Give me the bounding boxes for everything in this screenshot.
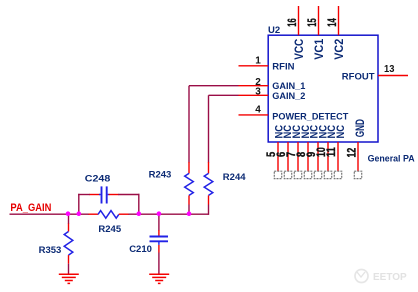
pin 4 (POWER_DETECT) lead — [239, 114, 269, 116]
capacitor C248 — [89, 186, 119, 203]
svg-text:GAIN_2: GAIN_2 — [272, 91, 305, 102]
junction at R243 / rail — [187, 211, 192, 216]
svg-text:3: 3 — [255, 87, 261, 98]
wire rail to C210 — [158, 214, 160, 230]
resistor R245 — [89, 211, 129, 219]
wire C248 loop top-right — [118, 194, 139, 196]
junction at C248 loop left / rail — [77, 211, 82, 216]
junction at C248 loop right / rail — [137, 211, 142, 216]
resistor R243 — [185, 162, 194, 205]
svg-text:R353: R353 — [39, 245, 62, 256]
svg-text:R245: R245 — [98, 224, 121, 235]
wire C248 loop top-left — [78, 194, 90, 196]
pin 16 (VCC) lead — [298, 6, 300, 35]
resistor R353 — [64, 224, 73, 264]
svg-text:VC2: VC2 — [332, 39, 346, 60]
svg-text:1: 1 — [255, 55, 261, 66]
svg-text:EETOP: EETOP — [373, 272, 407, 283]
svg-text:C248: C248 — [85, 174, 111, 185]
svg-text:RFOUT: RFOUT — [342, 71, 375, 82]
wire rail to R353 — [68, 214, 70, 224]
svg-text:13: 13 — [384, 64, 395, 75]
pin 8 no-connect square — [304, 171, 311, 178]
pin 5 no-connect square — [274, 171, 281, 178]
pin 7 (NC) lead — [297, 142, 299, 171]
svg-text:PA_GAIN: PA_GAIN — [10, 202, 51, 214]
svg-text:General PA: General PA — [368, 153, 415, 163]
wire PA_GAIN rail left segment — [10, 213, 90, 215]
pin 6 (NC) lead — [287, 142, 289, 171]
svg-text:11: 11 — [326, 147, 338, 157]
pin 6 no-connect square — [284, 171, 291, 178]
watermark EETOP — [355, 270, 407, 284]
svg-text:GND: GND — [353, 119, 367, 137]
wire C248 loop left vertical — [78, 194, 80, 214]
pin 1 (RFIN) lead — [239, 65, 269, 67]
pin 15 (VC1) lead — [318, 6, 320, 35]
wire PA_GAIN rail right segment — [128, 213, 209, 215]
wire C248 loop right vertical — [138, 194, 140, 214]
wire R244 to rail — [208, 205, 210, 215]
pin 10 (NC) lead — [327, 142, 329, 171]
wire GAIN_2 vertical to R244 — [208, 95, 210, 162]
wire GAIN_2 horizontal — [209, 94, 239, 96]
pin 3 (GAIN_2) lead — [239, 94, 269, 96]
svg-text:14: 14 — [327, 18, 339, 27]
svg-text:4: 4 — [255, 104, 261, 115]
wire GAIN_1 vertical to R243 — [188, 86, 190, 163]
pin 5 (NC) lead — [277, 142, 279, 171]
svg-text:15: 15 — [307, 18, 319, 27]
pin 12 (GND) lead — [357, 142, 359, 171]
wire R243 to rail — [188, 205, 190, 215]
pin 9 (NC) lead — [317, 142, 319, 171]
capacitor C210 — [150, 230, 169, 253]
resistor R244 — [204, 162, 213, 205]
pin 11 no-connect square — [334, 171, 341, 178]
junction at R353 / rail — [66, 211, 71, 216]
pin 12 no-connect square — [354, 171, 361, 178]
wire C210 to ground — [158, 253, 160, 274]
pin 13 (RFOUT) lead — [378, 75, 408, 77]
ground (below C210) — [149, 274, 169, 283]
pin 8 (NC) lead — [307, 142, 309, 171]
junction at C210 / rail — [157, 211, 162, 216]
IC U2 body — [268, 35, 378, 142]
svg-text:C210: C210 — [129, 244, 152, 255]
svg-text:12: 12 — [346, 148, 358, 158]
pin 2 (GAIN_1) lead — [239, 85, 269, 87]
pin 7 no-connect square — [294, 171, 301, 178]
wire R353 to ground — [68, 264, 70, 274]
svg-text:16: 16 — [287, 18, 299, 26]
pin 10 no-connect square — [324, 171, 331, 178]
ground (below R353) — [59, 274, 79, 283]
svg-text:RFIN: RFIN — [272, 61, 294, 72]
svg-text:R243: R243 — [149, 170, 172, 181]
wire GAIN_1 horizontal — [189, 85, 239, 87]
svg-text:U2: U2 — [268, 25, 280, 36]
pin 14 (VC2) lead — [338, 6, 340, 35]
pin 9 no-connect square — [314, 171, 321, 178]
svg-text:VC1: VC1 — [312, 39, 326, 60]
svg-text:VCC: VCC — [292, 39, 306, 60]
svg-text:POWER_DETECT: POWER_DETECT — [272, 112, 348, 123]
svg-text:R244: R244 — [223, 172, 246, 183]
pin 11 (NC) lead — [337, 142, 339, 171]
svg-text:NC: NC — [335, 125, 347, 139]
